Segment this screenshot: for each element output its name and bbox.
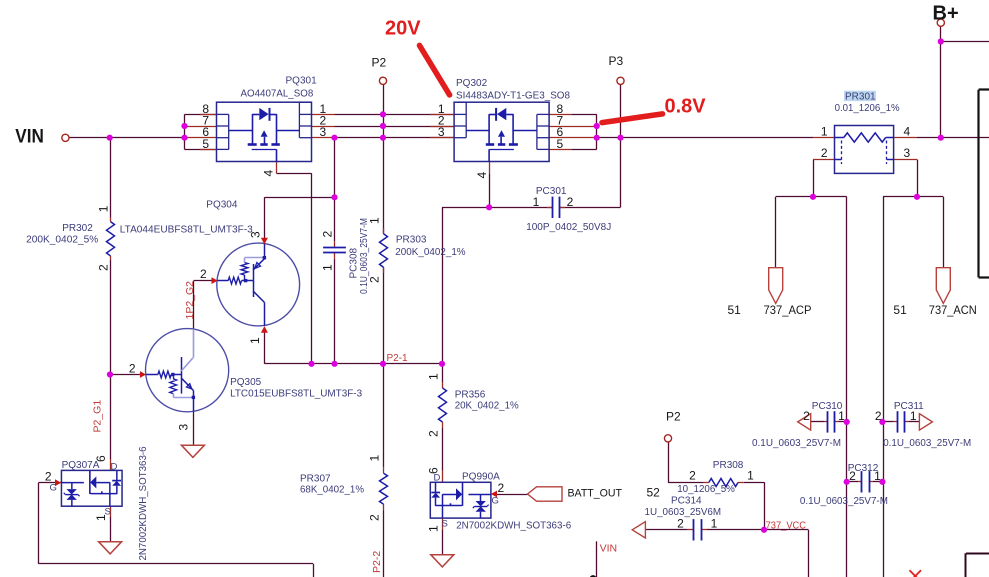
- svg-text:SI4483ADY-T1-GE3_SO8: SI4483ADY-T1-GE3_SO8: [456, 90, 570, 101]
- svg-text:P2-2: P2-2: [371, 551, 383, 573]
- svg-text:PC301: PC301: [536, 186, 567, 197]
- svg-text:1P2_G2: 1P2_G2: [184, 281, 196, 320]
- svg-text:100P_0402_50V8J: 100P_0402_50V8J: [526, 222, 611, 233]
- svg-text:6: 6: [427, 467, 441, 474]
- svg-text:0.8V: 0.8V: [665, 95, 707, 117]
- svg-text:PR307: PR307: [300, 474, 331, 485]
- svg-text:P2-1: P2-1: [387, 353, 409, 364]
- svg-text:2: 2: [200, 267, 207, 281]
- svg-text:68K_0402_1%: 68K_0402_1%: [300, 485, 364, 496]
- svg-text:1: 1: [910, 409, 917, 423]
- svg-text:2: 2: [129, 362, 136, 376]
- svg-text:2: 2: [45, 469, 52, 483]
- svg-text:1: 1: [321, 264, 335, 271]
- svg-text:PR308: PR308: [713, 460, 744, 471]
- svg-text:3: 3: [320, 125, 327, 139]
- svg-text:1: 1: [427, 373, 441, 380]
- svg-text:737_VCC: 737_VCC: [766, 519, 807, 531]
- svg-text:20V: 20V: [385, 18, 421, 40]
- svg-text:PR303: PR303: [396, 235, 427, 246]
- svg-text:1: 1: [533, 195, 540, 209]
- svg-text:P3: P3: [609, 54, 624, 68]
- svg-text:1: 1: [94, 514, 108, 521]
- svg-text:LTA044EUBFS8TL_UMT3F-3: LTA044EUBFS8TL_UMT3F-3: [120, 224, 253, 235]
- svg-text:PQ305: PQ305: [230, 377, 262, 388]
- svg-text:4: 4: [904, 124, 911, 138]
- svg-text:2: 2: [821, 146, 828, 160]
- svg-text:VIN: VIN: [600, 543, 618, 555]
- svg-text:4: 4: [475, 172, 489, 179]
- svg-text:G: G: [492, 496, 499, 507]
- svg-text:5: 5: [202, 137, 209, 151]
- svg-text:0.1U_0603_25V7-M: 0.1U_0603_25V7-M: [883, 438, 971, 449]
- svg-text:51: 51: [728, 303, 742, 317]
- svg-text:1: 1: [747, 469, 754, 483]
- svg-text:1: 1: [427, 525, 441, 532]
- svg-text:0.1U_0603_25V7-M: 0.1U_0603_25V7-M: [800, 496, 888, 507]
- svg-text:P2: P2: [372, 55, 387, 69]
- svg-text:PQ301: PQ301: [286, 75, 318, 86]
- svg-text:PR301: PR301: [845, 92, 876, 103]
- svg-text:2: 2: [849, 469, 856, 483]
- svg-text:2: 2: [368, 514, 382, 521]
- svg-text:51: 51: [893, 303, 907, 317]
- svg-text:1: 1: [711, 517, 718, 531]
- svg-text:1: 1: [368, 455, 382, 462]
- svg-text:2: 2: [689, 469, 696, 483]
- svg-text:200K_0402_1%: 200K_0402_1%: [395, 247, 465, 258]
- svg-text:D: D: [111, 462, 118, 473]
- svg-text:2: 2: [875, 409, 882, 423]
- svg-text:2: 2: [498, 481, 505, 495]
- svg-text:1: 1: [97, 205, 111, 212]
- svg-text:2: 2: [567, 195, 574, 209]
- svg-text:0.1U_0603_25V7-M: 0.1U_0603_25V7-M: [752, 438, 841, 449]
- svg-text:PQ990A: PQ990A: [462, 472, 500, 483]
- svg-text:4: 4: [262, 170, 276, 177]
- svg-text:1: 1: [874, 469, 881, 483]
- svg-text:S: S: [442, 518, 448, 529]
- svg-text:0.01_1206_1%: 0.01_1206_1%: [835, 103, 900, 114]
- svg-text:2: 2: [97, 264, 111, 271]
- svg-text:P2: P2: [666, 410, 681, 424]
- svg-text:6: 6: [94, 455, 108, 462]
- svg-text:2: 2: [427, 430, 441, 437]
- svg-text:1: 1: [838, 409, 845, 423]
- svg-text:P2_G1: P2_G1: [92, 400, 104, 433]
- svg-text:BATT_OUT: BATT_OUT: [568, 488, 623, 500]
- svg-text:PR356: PR356: [455, 390, 486, 401]
- svg-text:0.1U_0603_25V7-M: 0.1U_0603_25V7-M: [359, 218, 370, 294]
- svg-text:3: 3: [438, 125, 445, 139]
- svg-text:G: G: [50, 482, 57, 493]
- svg-text:10_1206_5%: 10_1206_5%: [677, 484, 735, 495]
- svg-text:737_ACN: 737_ACN: [929, 303, 977, 317]
- svg-text:2N7002KDWH_SOT363-6: 2N7002KDWH_SOT363-6: [456, 520, 571, 531]
- svg-text:2: 2: [677, 517, 684, 531]
- svg-text:1: 1: [821, 124, 828, 138]
- svg-text:5: 5: [557, 137, 564, 151]
- svg-text:PQ302: PQ302: [456, 78, 488, 89]
- svg-text:LTC015EUBFS8TL_UMT3F-3: LTC015EUBFS8TL_UMT3F-3: [230, 389, 362, 400]
- svg-text:52: 52: [647, 485, 661, 499]
- svg-text:2: 2: [321, 231, 335, 238]
- svg-text:200K_0402_5%: 200K_0402_5%: [26, 235, 98, 246]
- svg-text:3: 3: [177, 424, 191, 431]
- svg-text:2N7002KDWH_SOT363-6: 2N7002KDWH_SOT363-6: [138, 446, 149, 560]
- svg-text:PC314: PC314: [671, 496, 702, 507]
- svg-text:1: 1: [248, 337, 262, 344]
- svg-text:20K_0402_1%: 20K_0402_1%: [455, 401, 519, 412]
- svg-text:PQ304: PQ304: [206, 200, 238, 211]
- svg-text:2: 2: [803, 409, 810, 423]
- svg-text:3: 3: [904, 146, 911, 160]
- svg-text:B+: B+: [933, 2, 959, 24]
- svg-text:AO4407AL_SO8: AO4407AL_SO8: [241, 88, 314, 99]
- svg-text:PR302: PR302: [62, 223, 93, 234]
- svg-text:VIN: VIN: [15, 126, 44, 147]
- svg-text:3: 3: [249, 231, 263, 238]
- svg-text:737_ACP: 737_ACP: [764, 303, 812, 317]
